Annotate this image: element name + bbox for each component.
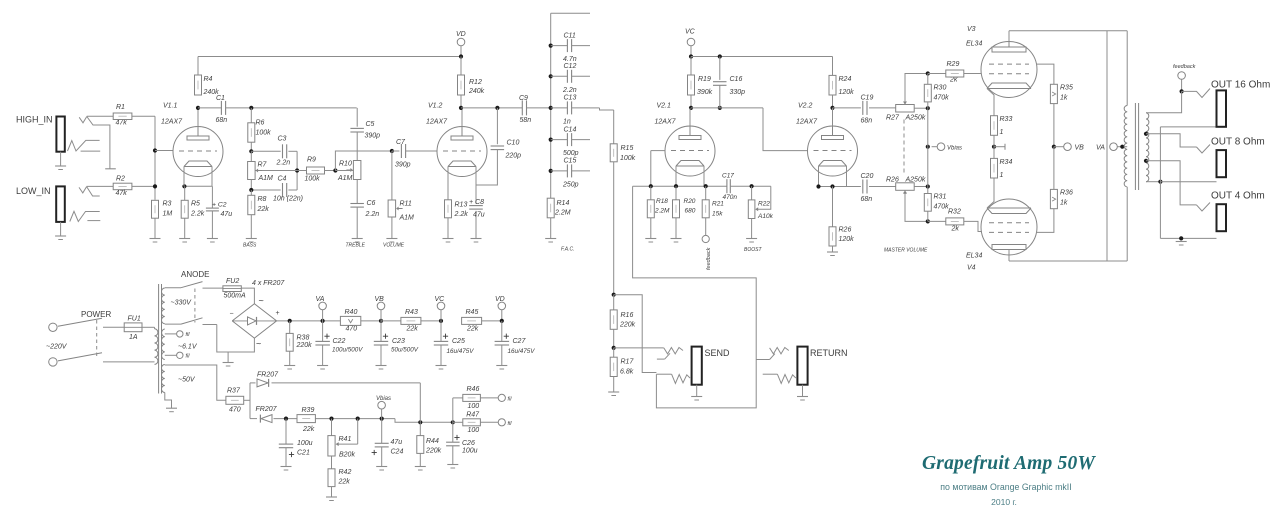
svg-text:R6: R6 <box>256 120 265 127</box>
svg-text:~220V: ~220V <box>46 344 68 351</box>
svg-text:VD: VD <box>495 296 505 303</box>
svg-text:R30: R30 <box>934 85 947 92</box>
svg-text:100u/500V: 100u/500V <box>332 346 363 353</box>
svg-text:VC: VC <box>435 296 446 303</box>
svg-text:22k: 22k <box>466 326 479 333</box>
svg-text:R7: R7 <box>258 162 268 169</box>
svg-text:R20: R20 <box>684 198 696 205</box>
svg-text:68n: 68n <box>861 196 873 203</box>
svg-text:A1M: A1M <box>258 175 274 182</box>
svg-text:R22: R22 <box>758 201 770 208</box>
svg-text:12AX7: 12AX7 <box>426 119 448 126</box>
svg-text:12AX7: 12AX7 <box>796 119 818 126</box>
svg-text:+ C2: + C2 <box>212 201 227 208</box>
svg-text:C25: C25 <box>452 338 465 345</box>
svg-text:~: ~ <box>259 296 264 306</box>
svg-text:R27: R27 <box>886 115 900 122</box>
svg-text:100k: 100k <box>256 130 272 137</box>
svg-text:R18: R18 <box>656 198 668 205</box>
svg-text:47u: 47u <box>221 211 233 218</box>
svg-text:MASTER VOLUME: MASTER VOLUME <box>884 248 928 254</box>
svg-text:FR207: FR207 <box>257 372 279 379</box>
svg-text:R2: R2 <box>116 176 125 183</box>
svg-text:R9: R9 <box>307 157 316 164</box>
svg-text:47u: 47u <box>391 439 403 446</box>
svg-text:A10k: A10k <box>757 213 774 220</box>
svg-text:C26: C26 <box>462 440 475 447</box>
svg-text:R29: R29 <box>947 61 960 68</box>
svg-text:R12: R12 <box>469 79 482 86</box>
svg-text:220k: 220k <box>619 322 636 329</box>
svg-text:ANODE: ANODE <box>181 270 209 279</box>
svg-text:1: 1 <box>1000 172 1004 179</box>
svg-text:1k: 1k <box>1060 95 1068 102</box>
svg-text:330p: 330p <box>730 89 746 96</box>
svg-text:16u/475V: 16u/475V <box>508 348 536 355</box>
svg-text:fil: fil <box>186 354 191 360</box>
svg-text:250p: 250p <box>562 181 579 188</box>
svg-text:VA: VA <box>1096 145 1105 152</box>
svg-text:V3: V3 <box>967 26 976 33</box>
svg-text:500mA: 500mA <box>224 292 247 299</box>
svg-text:R45: R45 <box>466 309 479 316</box>
svg-text:RETURN: RETURN <box>810 348 848 358</box>
svg-text:2.2M: 2.2M <box>554 210 571 217</box>
svg-text:R33: R33 <box>1000 116 1013 123</box>
svg-text:47k: 47k <box>116 120 128 127</box>
svg-text:1k: 1k <box>1060 200 1068 207</box>
svg-text:fil: fil <box>186 332 191 338</box>
svg-text:R5: R5 <box>191 201 200 208</box>
svg-text:2.2n: 2.2n <box>365 211 380 218</box>
svg-text:10n (22n): 10n (22n) <box>273 196 303 203</box>
svg-text:C13: C13 <box>564 95 577 102</box>
svg-text:~: ~ <box>256 339 261 349</box>
svg-text:C6: C6 <box>367 200 376 207</box>
svg-text:OUT 8 Ohm: OUT 8 Ohm <box>1211 137 1265 148</box>
svg-text:V1.2: V1.2 <box>428 103 443 110</box>
svg-text:C7: C7 <box>396 139 406 146</box>
svg-text:C9: C9 <box>519 95 528 102</box>
svg-text:47u: 47u <box>473 212 485 219</box>
svg-text:1n: 1n <box>563 118 571 125</box>
svg-text:TREBLE: TREBLE <box>346 243 366 249</box>
svg-text:500p: 500p <box>563 150 579 157</box>
svg-text:220k: 220k <box>296 342 313 349</box>
svg-text:FU2: FU2 <box>226 278 239 285</box>
svg-text:58n: 58n <box>520 117 532 124</box>
svg-text:2.2n: 2.2n <box>276 160 291 167</box>
svg-text:C24: C24 <box>391 449 404 456</box>
svg-text:EL34: EL34 <box>966 41 982 48</box>
svg-text:22k: 22k <box>338 479 351 486</box>
svg-text:+ C8: + C8 <box>469 199 484 206</box>
svg-text:R19: R19 <box>698 76 711 83</box>
svg-text:470k: 470k <box>934 95 950 102</box>
svg-text:SEND: SEND <box>705 348 731 358</box>
svg-text:A250k: A250k <box>905 115 926 122</box>
svg-text:R24: R24 <box>839 76 852 83</box>
svg-text:R44: R44 <box>426 438 439 445</box>
svg-text:C19: C19 <box>861 94 874 101</box>
svg-text:12AX7: 12AX7 <box>161 119 183 126</box>
svg-text:VD: VD <box>456 31 466 38</box>
svg-text:R39: R39 <box>302 407 315 414</box>
svg-text:C21: C21 <box>297 450 310 457</box>
svg-text:R31: R31 <box>934 194 947 201</box>
svg-text:R3: R3 <box>163 201 172 208</box>
svg-text:2.2n: 2.2n <box>562 87 577 94</box>
svg-text:feedback: feedback <box>1173 64 1196 70</box>
svg-text:68n: 68n <box>216 117 228 124</box>
svg-text:OUT 16 Ohm: OUT 16 Ohm <box>1211 80 1270 91</box>
svg-text:R1: R1 <box>116 104 125 111</box>
svg-text:R13: R13 <box>455 202 468 209</box>
svg-text:FU1: FU1 <box>128 316 141 323</box>
svg-text:BASS: BASS <box>243 243 257 249</box>
svg-text:C14: C14 <box>564 126 577 133</box>
svg-text:50u/500V: 50u/500V <box>391 346 419 353</box>
svg-text:R32: R32 <box>948 209 961 216</box>
svg-text:R15: R15 <box>621 145 634 152</box>
svg-text:100k: 100k <box>305 176 321 183</box>
svg-text:R37: R37 <box>227 388 241 395</box>
svg-text:R38: R38 <box>297 335 310 342</box>
svg-text:R16: R16 <box>621 312 634 319</box>
svg-text:120k: 120k <box>839 89 855 96</box>
svg-text:1A: 1A <box>129 334 138 341</box>
svg-text:390k: 390k <box>697 89 713 96</box>
svg-text:R46: R46 <box>467 386 480 393</box>
svg-text:по мотивам Orange Graphic mkII: по мотивам Orange Graphic mkII <box>940 482 1071 492</box>
svg-text:C12: C12 <box>564 63 577 70</box>
svg-text:R43: R43 <box>405 309 418 316</box>
svg-text:100u: 100u <box>462 448 478 455</box>
svg-text:fil: fil <box>508 421 513 427</box>
svg-text:R42: R42 <box>339 469 352 476</box>
svg-text:6.8k: 6.8k <box>620 369 634 376</box>
svg-text:2.2M: 2.2M <box>654 208 670 215</box>
svg-text:VOLUME: VOLUME <box>383 243 405 249</box>
svg-text:C17: C17 <box>722 173 734 180</box>
svg-text:R47: R47 <box>466 412 480 419</box>
svg-text:47k: 47k <box>116 190 128 197</box>
svg-text:V2.2: V2.2 <box>798 103 813 110</box>
svg-text:V4: V4 <box>967 265 976 272</box>
svg-text:12AX7: 12AX7 <box>655 119 677 126</box>
svg-text:120k: 120k <box>839 236 855 243</box>
svg-text:C11: C11 <box>564 32 576 39</box>
svg-text:R4: R4 <box>204 76 213 83</box>
svg-text:2k: 2k <box>951 226 960 233</box>
svg-text:V2.1: V2.1 <box>657 103 672 110</box>
svg-text:R8: R8 <box>258 196 267 203</box>
svg-text:C10: C10 <box>507 140 520 147</box>
svg-text:+: + <box>276 310 280 317</box>
svg-text:470: 470 <box>346 326 358 333</box>
svg-text:15k: 15k <box>712 211 723 218</box>
svg-text:470: 470 <box>229 407 241 414</box>
svg-text:C27: C27 <box>513 338 527 345</box>
svg-text:R40: R40 <box>345 309 358 316</box>
svg-text:Grapefruit Amp 50W: Grapefruit Amp 50W <box>922 453 1096 474</box>
svg-text:VB: VB <box>1075 145 1085 152</box>
svg-text:FR207: FR207 <box>256 406 278 413</box>
svg-text:C23: C23 <box>392 338 405 345</box>
svg-text:B20k: B20k <box>339 452 355 459</box>
svg-text:680: 680 <box>685 208 696 215</box>
svg-text:~6.1V: ~6.1V <box>178 344 198 351</box>
svg-text:A1M: A1M <box>337 175 353 182</box>
svg-text:EL34: EL34 <box>966 253 982 260</box>
svg-text:16u/475V: 16u/475V <box>447 348 475 355</box>
svg-text:VB: VB <box>375 296 385 303</box>
svg-text:R10: R10 <box>339 161 352 168</box>
svg-text:R36: R36 <box>1060 190 1073 197</box>
svg-text:22k: 22k <box>406 326 419 333</box>
svg-text:1M: 1M <box>163 211 173 218</box>
svg-text:A1M: A1M <box>399 215 415 222</box>
svg-text:R35: R35 <box>1060 85 1073 92</box>
svg-text:VC: VC <box>685 29 696 36</box>
svg-text:R26: R26 <box>839 227 852 234</box>
svg-text:C4: C4 <box>278 176 287 183</box>
svg-text:OUT 4 Ohm: OUT 4 Ohm <box>1211 191 1265 202</box>
svg-text:4.7n: 4.7n <box>563 56 577 63</box>
svg-text:2010 г.: 2010 г. <box>991 497 1017 507</box>
svg-text:470k: 470k <box>934 204 950 211</box>
svg-text:R34: R34 <box>1000 159 1013 166</box>
svg-text:R14: R14 <box>557 200 570 207</box>
svg-text:2.2k: 2.2k <box>454 211 469 218</box>
svg-text:fil: fil <box>508 397 513 403</box>
svg-text:POWER: POWER <box>81 310 111 319</box>
svg-text:R11: R11 <box>400 201 412 208</box>
svg-text:~50V: ~50V <box>178 377 196 384</box>
svg-text:Vbias: Vbias <box>376 396 391 402</box>
svg-text:100: 100 <box>468 427 480 434</box>
svg-text:2.2k: 2.2k <box>190 211 205 218</box>
svg-text:R41: R41 <box>339 436 352 443</box>
svg-text:390p: 390p <box>365 133 381 140</box>
svg-text:C22: C22 <box>333 338 346 345</box>
svg-text:68n: 68n <box>861 117 873 124</box>
svg-text:C20: C20 <box>861 173 874 180</box>
svg-text:C16: C16 <box>730 76 743 83</box>
svg-text:C1: C1 <box>216 95 225 102</box>
svg-text:390p: 390p <box>395 162 411 169</box>
svg-text:C3: C3 <box>278 136 287 143</box>
svg-text:100: 100 <box>468 403 480 410</box>
svg-text:470n: 470n <box>723 194 738 201</box>
svg-text:LOW_IN: LOW_IN <box>16 186 51 196</box>
svg-text:240k: 240k <box>468 88 485 95</box>
svg-text:1: 1 <box>1000 129 1004 136</box>
svg-text:BOOST: BOOST <box>744 247 762 253</box>
svg-text:220k: 220k <box>425 448 442 455</box>
svg-text:~330V: ~330V <box>171 300 193 307</box>
svg-text:22k: 22k <box>302 426 315 433</box>
svg-text:2k: 2k <box>949 77 958 84</box>
svg-text:HIGH_IN: HIGH_IN <box>16 115 53 125</box>
svg-text:C15: C15 <box>564 158 577 165</box>
svg-text:4 x FR207: 4 x FR207 <box>252 280 285 287</box>
svg-text:22k: 22k <box>257 206 270 213</box>
svg-text:R17: R17 <box>621 359 635 366</box>
svg-text:Vbias: Vbias <box>947 146 962 152</box>
svg-text:220p: 220p <box>505 153 522 160</box>
svg-text:F.A.C.: F.A.C. <box>561 247 575 253</box>
svg-text:C5: C5 <box>366 121 375 128</box>
svg-text:R21: R21 <box>712 201 724 208</box>
svg-text:−: − <box>230 311 234 318</box>
svg-text:V1.1: V1.1 <box>163 103 178 110</box>
svg-text:100u: 100u <box>297 440 313 447</box>
svg-text:100k: 100k <box>620 155 636 162</box>
svg-text:feedback: feedback <box>706 247 712 270</box>
